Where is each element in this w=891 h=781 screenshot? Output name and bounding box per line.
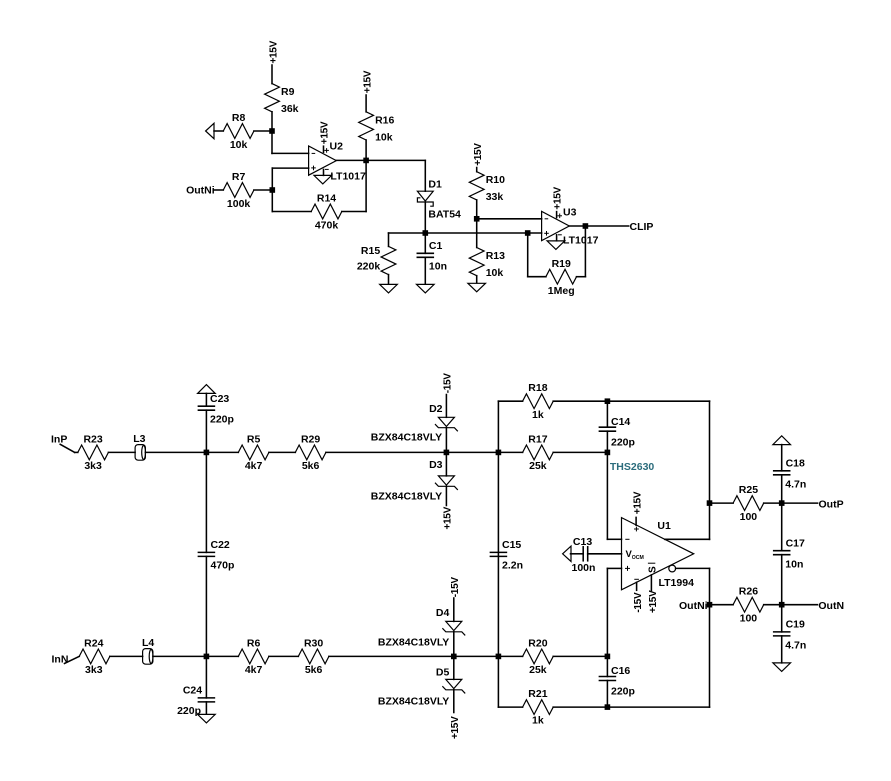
svg-text:1k: 1k <box>532 715 544 727</box>
svg-text:InN: InN <box>52 653 69 665</box>
svg-text:C14: C14 <box>611 416 630 428</box>
svg-text:C19: C19 <box>786 619 805 631</box>
svg-text:LT1017: LT1017 <box>330 171 366 183</box>
svg-text:OCM: OCM <box>632 555 644 561</box>
svg-text:OutN: OutN <box>818 600 844 612</box>
svg-text:R16: R16 <box>375 114 394 126</box>
svg-text:+15V: +15V <box>362 70 373 93</box>
svg-text:BZX84C18VLY: BZX84C18VLY <box>378 695 449 707</box>
svg-text:4.7n: 4.7n <box>785 639 806 651</box>
svg-text:4k7: 4k7 <box>245 664 263 676</box>
svg-text:R7: R7 <box>232 171 246 183</box>
svg-text:2.2n: 2.2n <box>502 560 523 572</box>
svg-text:220p: 220p <box>177 705 201 717</box>
svg-text:-15V: -15V <box>450 577 461 598</box>
svg-text:R21: R21 <box>528 688 547 700</box>
svg-text:CLIP: CLIP <box>630 221 654 233</box>
svg-text:D4: D4 <box>436 607 450 619</box>
svg-text:+15V: +15V <box>450 716 461 739</box>
svg-text:R25: R25 <box>739 484 758 496</box>
svg-text:3k3: 3k3 <box>85 664 103 676</box>
svg-text:D3: D3 <box>429 459 443 471</box>
svg-text:220k: 220k <box>357 260 381 272</box>
svg-text:C22: C22 <box>211 539 230 551</box>
svg-text:+15V: +15V <box>473 143 484 166</box>
svg-text:25k: 25k <box>529 460 547 472</box>
svg-text:10n: 10n <box>429 261 447 273</box>
svg-text:BZX84C18VLY: BZX84C18VLY <box>378 637 449 649</box>
svg-text:100n: 100n <box>572 562 596 574</box>
svg-text:OutNi: OutNi <box>679 600 708 612</box>
svg-text:R29: R29 <box>301 433 320 445</box>
svg-text:THS2630: THS2630 <box>610 461 655 473</box>
svg-text:33k: 33k <box>486 191 504 203</box>
svg-text:LT1017: LT1017 <box>563 234 599 246</box>
svg-text:R20: R20 <box>528 637 547 649</box>
svg-text:+15V: +15V <box>648 590 659 613</box>
svg-text:+15V: +15V <box>632 491 643 514</box>
svg-text:S: S <box>648 566 659 573</box>
svg-text:L3: L3 <box>133 433 145 445</box>
svg-text:L4: L4 <box>142 637 154 649</box>
svg-text:5k6: 5k6 <box>302 460 320 472</box>
svg-text:R14: R14 <box>317 193 336 205</box>
svg-text:1Meg: 1Meg <box>548 285 575 297</box>
svg-text:3k3: 3k3 <box>84 460 102 472</box>
svg-text:C16: C16 <box>611 665 630 677</box>
svg-text:OutNi: OutNi <box>186 185 215 197</box>
svg-text:4.7n: 4.7n <box>785 479 806 491</box>
svg-text:U2: U2 <box>330 140 344 152</box>
svg-text:R18: R18 <box>528 382 547 394</box>
svg-text:LT1994: LT1994 <box>659 577 695 589</box>
svg-text:220p: 220p <box>611 437 635 449</box>
svg-text:25k: 25k <box>529 664 547 676</box>
svg-text:C18: C18 <box>786 458 805 470</box>
svg-text:R13: R13 <box>486 250 505 262</box>
svg-text:-15V: -15V <box>443 373 454 394</box>
svg-text:10n: 10n <box>785 558 803 570</box>
svg-text:4k7: 4k7 <box>245 460 263 472</box>
svg-text:R10: R10 <box>486 174 505 186</box>
svg-text:470p: 470p <box>211 560 235 572</box>
svg-text:C15: C15 <box>502 539 521 551</box>
svg-text:R5: R5 <box>247 433 261 445</box>
svg-text:R6: R6 <box>247 637 261 649</box>
svg-text:D5: D5 <box>436 667 450 679</box>
svg-text:R26: R26 <box>739 586 758 598</box>
svg-text:C23: C23 <box>210 393 229 405</box>
svg-text:100k: 100k <box>227 198 251 210</box>
svg-text:U1: U1 <box>657 520 671 532</box>
svg-text:10k: 10k <box>375 131 393 143</box>
svg-text:220p: 220p <box>611 686 635 698</box>
svg-text:100: 100 <box>740 613 758 625</box>
svg-text:R19: R19 <box>552 258 571 270</box>
svg-text:+15V: +15V <box>552 187 563 210</box>
svg-text:220p: 220p <box>210 414 234 426</box>
svg-text:BAT54: BAT54 <box>428 208 461 220</box>
svg-text:R23: R23 <box>83 433 102 445</box>
svg-text:D1: D1 <box>428 179 442 191</box>
svg-text:BZX84C18VLY: BZX84C18VLY <box>371 490 442 502</box>
svg-text:C1: C1 <box>429 240 443 252</box>
svg-text:C17: C17 <box>786 537 805 549</box>
svg-text:5k6: 5k6 <box>305 664 323 676</box>
svg-text:R24: R24 <box>84 637 103 649</box>
svg-text:D2: D2 <box>429 403 443 415</box>
svg-text:100: 100 <box>740 511 758 523</box>
svg-text:10k: 10k <box>230 139 248 151</box>
svg-text:+15V: +15V <box>443 506 454 529</box>
svg-text:C13: C13 <box>573 536 592 548</box>
svg-text:+15V: +15V <box>319 121 330 144</box>
svg-text:InP: InP <box>51 434 67 446</box>
svg-text:R8: R8 <box>232 112 246 124</box>
svg-text:470k: 470k <box>315 220 339 232</box>
svg-text:-15V: -15V <box>633 592 644 613</box>
svg-text:C24: C24 <box>183 685 202 697</box>
svg-text:OutP: OutP <box>819 498 844 510</box>
svg-text:10k: 10k <box>486 267 504 279</box>
svg-text:BZX84C18VLY: BZX84C18VLY <box>371 432 442 444</box>
svg-text:R9: R9 <box>281 86 295 98</box>
svg-text:R15: R15 <box>361 245 380 257</box>
svg-text:R30: R30 <box>304 637 323 649</box>
svg-text:1k: 1k <box>532 409 544 421</box>
svg-text:+15V: +15V <box>268 40 279 63</box>
svg-text:36k: 36k <box>281 103 299 115</box>
svg-text:R17: R17 <box>528 433 547 445</box>
svg-text:U3: U3 <box>563 207 577 219</box>
